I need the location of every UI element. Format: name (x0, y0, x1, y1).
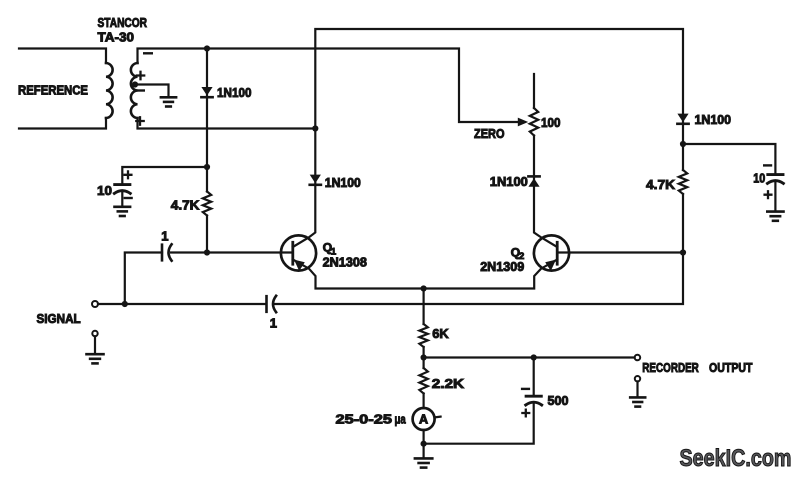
svg-text:OUTPUT: OUTPUT (709, 360, 753, 375)
svg-text:4.7K: 4.7K (171, 198, 200, 213)
svg-text:4.7K: 4.7K (646, 177, 676, 192)
svg-text:TA-30: TA-30 (98, 29, 135, 44)
svg-text:SIGNAL: SIGNAL (37, 311, 81, 326)
svg-text:REFERENCE: REFERENCE (18, 83, 88, 98)
svg-text:ZERO: ZERO (474, 126, 505, 141)
svg-text:2N1309: 2N1309 (480, 259, 524, 274)
svg-text:25-0-25: 25-0-25 (336, 412, 393, 427)
svg-text:RECORDER: RECORDER (642, 360, 699, 375)
svg-text:100: 100 (541, 115, 561, 130)
svg-text:SeekIC.com: SeekIC.com (680, 446, 792, 472)
svg-text:500: 500 (548, 393, 569, 408)
svg-text:1N100: 1N100 (217, 85, 252, 100)
svg-text:10: 10 (97, 183, 112, 198)
svg-text:STANCOR: STANCOR (98, 15, 148, 30)
svg-text:2.2K: 2.2K (432, 376, 465, 391)
svg-text:10: 10 (753, 171, 765, 186)
svg-text:1: 1 (270, 315, 277, 330)
svg-text:6K: 6K (432, 326, 449, 341)
svg-text:1N100: 1N100 (490, 174, 528, 189)
svg-text:1N100: 1N100 (325, 175, 361, 190)
svg-text:A: A (419, 412, 428, 426)
svg-text:1N100: 1N100 (695, 112, 732, 127)
svg-text:μa: μa (395, 412, 407, 427)
svg-text:2N1308: 2N1308 (323, 255, 367, 270)
svg-text:1: 1 (161, 228, 168, 243)
